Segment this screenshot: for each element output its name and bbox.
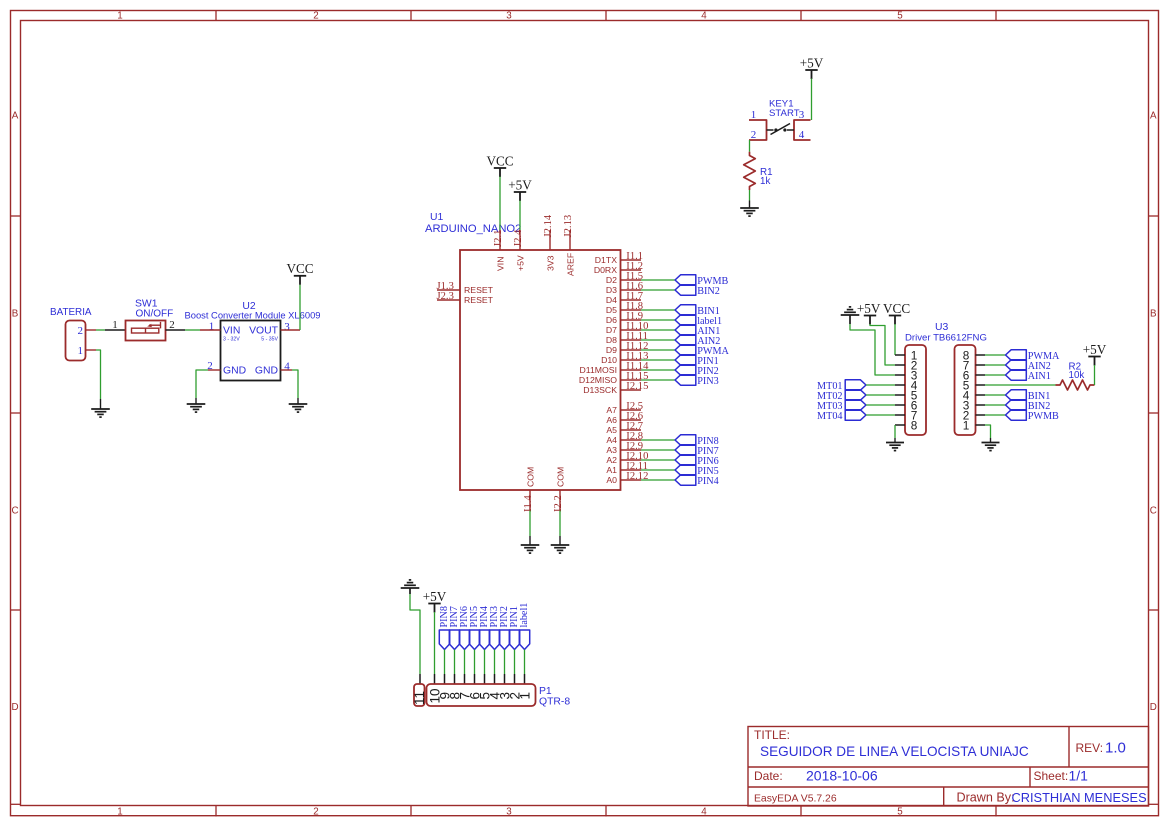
U3 left pin 3: [895, 374, 905, 376]
U1 top pin AREF / net J2.13: [569, 230, 571, 250]
wire R1 to ground: [749, 190, 751, 201]
svg-text:2: 2: [78, 325, 84, 337]
svg-text:4: 4: [284, 361, 290, 373]
U1 right pin D0RX / net I1.2: [621, 269, 642, 271]
title block dividers: [748, 766, 1149, 768]
U3 right body: [955, 345, 976, 435]
wire ground to P1.11: [409, 588, 411, 594]
wire +5V to U3.2: [870, 324, 895, 365]
net flag BIN1: [1006, 390, 1027, 400]
U1 right pin A7 / net I2.5: [621, 409, 642, 411]
svg-text:REV:: REV:: [1076, 741, 1104, 755]
U2 pin 3 stub: [281, 329, 301, 331]
U1 right pin D3 / net I1.6: [621, 289, 642, 291]
svg-text:D0RX: D0RX: [594, 265, 617, 275]
U3 left body: [905, 345, 926, 435]
net flag BIN2: [1006, 400, 1027, 410]
wire U3.1 right to ground: [985, 425, 991, 438]
svg-text:P1: P1: [539, 686, 552, 697]
U1 right pin A0 / net I2.12: [621, 479, 642, 481]
net flag PIN3: [489, 630, 499, 650]
svg-text:4: 4: [701, 806, 707, 817]
wire U3 to flag PWMB: [985, 414, 1006, 416]
svg-text:VCC: VCC: [286, 261, 313, 276]
svg-text:A1: A1: [606, 465, 617, 475]
ground at U1 COM I2.2: [551, 544, 570, 546]
wire D8 to flag AIN2: [641, 339, 675, 341]
U1 right pin D11MOSI / net I1.14: [621, 369, 642, 371]
svg-text:2: 2: [313, 11, 318, 22]
U3 right pin 7: [976, 364, 986, 366]
wire VCC to U2.3: [299, 285, 301, 330]
wire A1 to flag PIN5: [641, 469, 675, 471]
wire +5V to KEY1.3: [811, 79, 813, 121]
svg-text:+5V: +5V: [516, 255, 526, 271]
ground at U3 right pin1: [982, 442, 1000, 444]
U1 right pin D6 / net I1.9: [621, 319, 642, 321]
wire U3 to flag BIN2: [985, 404, 1006, 406]
svg-text:+5V: +5V: [857, 301, 881, 316]
svg-text:D3: D3: [606, 285, 617, 295]
svg-text:START: START: [769, 108, 800, 119]
U3 left pin 2: [895, 364, 905, 366]
wire A2 to flag PIN6: [641, 459, 675, 461]
U1 right pin D8 / net I1.11: [621, 339, 642, 341]
net flag PIN7: [675, 445, 696, 455]
svg-text:QTR-8: QTR-8: [539, 697, 570, 708]
svg-text:1k: 1k: [760, 176, 770, 187]
svg-text:GND: GND: [255, 366, 278, 377]
svg-text:A7: A7: [606, 405, 617, 415]
net flag PIN2: [675, 365, 696, 375]
svg-text:1: 1: [209, 321, 215, 333]
svg-text:CRISTHIAN MENESES: CRISTHIAN MENESES: [1012, 790, 1147, 805]
svg-text:RESET: RESET: [464, 285, 494, 295]
U1 top pin VIN / net J2.1: [499, 230, 501, 250]
wire U3 to flag BIN1: [985, 394, 1006, 396]
switch SW1 body: [126, 321, 166, 341]
svg-text:1: 1: [117, 11, 122, 22]
net flag label1: [675, 315, 696, 325]
svg-text:A: A: [12, 111, 19, 122]
svg-text:GND: GND: [223, 366, 246, 377]
svg-text:D: D: [11, 702, 18, 713]
connector P1 pin11 body: [414, 684, 425, 706]
U1 bottom pin COM / net I2.2: [559, 490, 561, 511]
net flag PIN6: [675, 455, 696, 465]
svg-text:J2.4: J2.4: [513, 229, 524, 247]
net flag PIN2: [499, 630, 509, 650]
resistor R1: [744, 152, 756, 190]
button KEY1 body: [749, 120, 767, 140]
wire VCC to U3.1: [894, 324, 896, 355]
svg-text:3: 3: [799, 109, 805, 121]
svg-text:RESET: RESET: [464, 295, 494, 305]
U1 left pin RESET / net J2.3: [437, 299, 460, 301]
U1 right pin A2 / net I2.10: [621, 459, 642, 461]
svg-text:J2.3: J2.3: [437, 291, 454, 302]
svg-text:U1: U1: [430, 212, 444, 223]
svg-text:1: 1: [117, 806, 122, 817]
net flag MT03: [845, 400, 866, 410]
wire A0 to flag PIN4: [641, 479, 675, 481]
net flag PWMA: [1006, 350, 1027, 360]
net flag PWMB: [1006, 410, 1027, 420]
frame row D closing ticks: [11, 803, 21, 805]
net flag PIN4: [479, 630, 489, 650]
wire A4 to flag PIN8: [641, 439, 675, 441]
wire PIN3 to P1: [494, 650, 496, 675]
wire PIN6 to P1: [464, 650, 466, 675]
U1 right pin D10 / net I1.13: [621, 359, 642, 361]
U1 right pin D13SCK / net I2.15: [621, 389, 642, 391]
svg-text:+5V: +5V: [423, 589, 447, 604]
U1 right pin A6 / net I2.6: [621, 419, 642, 421]
wire D9 to flag PWMA: [641, 349, 675, 351]
U1 right pin D5 / net I1.8: [621, 309, 642, 311]
svg-text:U3: U3: [935, 322, 949, 333]
svg-text:D2: D2: [606, 275, 617, 285]
wire +5V to P1.10: [434, 612, 436, 674]
wire PIN7 to P1: [454, 650, 456, 675]
wire U3.8 to ground: [894, 425, 896, 438]
wire SW1.2 to U2.1: [185, 329, 200, 331]
wire COM to ground: [529, 511, 531, 537]
U2 pin 4 stub: [281, 369, 293, 371]
svg-text:VIN: VIN: [496, 257, 506, 271]
ground at R1: [740, 207, 759, 209]
wire U3.5 to R2: [985, 384, 1056, 386]
U1 right pin A3 / net I2.9: [621, 449, 642, 451]
wire MT01 to U3: [866, 384, 895, 386]
ground at U1 COM I1.4: [521, 544, 540, 546]
wire +5V to U1 +5V pin: [519, 201, 521, 231]
wire D7 to flag AIN1: [641, 329, 675, 331]
svg-text:2: 2: [751, 129, 757, 141]
svg-text:J2.1: J2.1: [493, 230, 504, 247]
svg-text:D11MOSI: D11MOSI: [580, 365, 618, 375]
wire BATERIA.2 to SW1.1: [96, 329, 105, 331]
svg-text:A6: A6: [606, 415, 617, 425]
wire U3 to flag PWMA: [985, 354, 1006, 356]
U3 right pin 8: [976, 354, 986, 356]
net flag PIN1: [509, 630, 519, 650]
svg-text:Drawn By:: Drawn By:: [957, 790, 1015, 804]
U3 right pin 4: [976, 394, 986, 396]
svg-text:ARDUINO_NANO2: ARDUINO_NANO2: [425, 223, 521, 235]
svg-text:2018-10-06: 2018-10-06: [806, 767, 878, 783]
U1 right pin A1 / net I2.11: [621, 469, 642, 471]
ground (flipped) at U3 left: [841, 314, 860, 316]
svg-text:MT04: MT04: [817, 411, 842, 422]
svg-text:label1: label1: [519, 603, 530, 628]
ground at BATERIA.1: [91, 408, 110, 410]
wire MT04 to U3: [866, 414, 895, 416]
net flag AIN1: [1006, 370, 1027, 380]
net flag PWMB: [675, 275, 696, 285]
U1 right pin D7 / net I1.10: [621, 329, 642, 331]
svg-text:1: 1: [112, 319, 118, 331]
frame column ticks: [215, 11, 217, 21]
svg-text:C: C: [1150, 506, 1157, 517]
svg-text:TITLE:: TITLE:: [754, 728, 790, 742]
svg-text:+5V: +5V: [508, 177, 532, 192]
svg-text:D4: D4: [606, 295, 617, 305]
net flag PIN4: [675, 475, 696, 485]
net flag PIN3: [675, 375, 696, 385]
U3 left pin 6: [895, 404, 905, 406]
svg-text:1: 1: [517, 692, 532, 700]
svg-text:8: 8: [911, 418, 918, 432]
svg-text:AIN1: AIN1: [1028, 371, 1051, 382]
svg-text:4: 4: [799, 129, 805, 141]
svg-text:PWMB: PWMB: [1028, 411, 1059, 422]
wire label1 to P1: [524, 650, 526, 675]
net flag BIN1: [675, 305, 696, 315]
svg-text:PIN4: PIN4: [697, 476, 719, 487]
svg-text:B: B: [1150, 309, 1157, 320]
U3 right pin 2: [976, 414, 986, 416]
wire U2.2 to ground: [196, 370, 208, 398]
U1 right pin D9 / net I1.12: [621, 349, 642, 351]
svg-text:A4: A4: [606, 435, 617, 445]
wire U3 to flag AIN2: [985, 364, 1006, 366]
U3 left pin 8: [895, 424, 905, 426]
svg-text:D9: D9: [606, 345, 617, 355]
svg-text:2: 2: [169, 319, 175, 331]
wire D5 to flag BIN1: [641, 309, 675, 311]
connector BATERIA body: [66, 321, 86, 361]
wire KEY1.2 to R1: [749, 140, 751, 152]
svg-text:10k: 10k: [1069, 370, 1085, 381]
wire PIN5 to P1: [474, 650, 476, 675]
U3 right pin 5: [976, 384, 986, 386]
wire D3 to flag BIN2: [641, 289, 675, 291]
svg-text:ON/OFF: ON/OFF: [136, 309, 174, 320]
svg-text:COM: COM: [556, 467, 566, 487]
U2 pin 2 stub: [208, 369, 221, 371]
net flag label1: [519, 630, 529, 650]
svg-text:I2.12: I2.12: [626, 471, 648, 482]
svg-text:BIN2: BIN2: [697, 286, 720, 297]
U3 right pin 3: [976, 404, 986, 406]
U3 right pin 6: [976, 374, 986, 376]
svg-text:3 - 32V: 3 - 32V: [223, 337, 240, 343]
KEY1 contact dots and actuator: [774, 128, 777, 131]
svg-text:+5V: +5V: [800, 55, 824, 70]
svg-text:D12MISO: D12MISO: [579, 375, 617, 385]
svg-text:1/1: 1/1: [1069, 767, 1089, 783]
svg-text:+5V: +5V: [1083, 342, 1107, 357]
svg-text:B: B: [12, 309, 19, 320]
wire PIN1 to P1: [514, 650, 516, 675]
svg-text:A: A: [1150, 111, 1157, 122]
net flag BIN2: [675, 285, 696, 295]
svg-text:5: 5: [897, 11, 903, 22]
svg-text:SEGUIDOR DE LINEA VELOCISTA UN: SEGUIDOR DE LINEA VELOCISTA UNIAJC: [760, 744, 1029, 759]
net flag MT01: [845, 380, 866, 390]
net flag PIN8: [439, 630, 449, 650]
U1 bottom pin COM / net I1.4: [529, 490, 531, 511]
frame row ticks: [11, 215, 21, 217]
svg-text:5 - 35V: 5 - 35V: [261, 337, 278, 343]
wire D2 to flag PWMB: [641, 279, 675, 281]
svg-text:A0: A0: [606, 475, 617, 485]
svg-text:D: D: [1150, 702, 1157, 713]
svg-text:5: 5: [897, 806, 903, 817]
switch SW1 slide symbol: [132, 328, 159, 333]
U1 right pin D2 / net I1.5: [621, 279, 642, 281]
svg-text:VOUT: VOUT: [249, 326, 279, 337]
svg-text:AREF: AREF: [566, 253, 576, 276]
svg-text:3V3: 3V3: [546, 255, 556, 271]
net flag PIN1: [675, 355, 696, 365]
svg-text:COM: COM: [526, 467, 536, 487]
wire D12MISO to flag PIN3: [641, 379, 675, 381]
svg-text:1: 1: [751, 109, 757, 121]
wire MT03 to U3: [866, 404, 895, 406]
svg-text:D5: D5: [606, 305, 617, 315]
svg-text:A3: A3: [606, 445, 617, 455]
svg-text:J2.13: J2.13: [563, 215, 574, 238]
net flag PIN7: [449, 630, 459, 650]
wire BATERIA.1 to ground: [96, 350, 101, 399]
svg-text:1: 1: [963, 418, 970, 432]
connector P1 main body: [427, 684, 536, 706]
svg-text:I1.4: I1.4: [523, 495, 534, 512]
net flag PIN6: [459, 630, 469, 650]
svg-text:D8: D8: [606, 335, 617, 345]
wire PIN8 to P1: [444, 650, 446, 675]
U1 right pin A4 / net I2.8: [621, 439, 642, 441]
svg-text:EasyEDA V5.7.26: EasyEDA V5.7.26: [754, 793, 837, 804]
net flag AIN2: [675, 335, 696, 345]
svg-text:A2: A2: [606, 455, 617, 465]
U1 body: [460, 250, 621, 490]
wire MT02 to U3: [866, 394, 895, 396]
svg-text:Driver TB6612FNG: Driver TB6612FNG: [905, 333, 987, 344]
svg-text:3: 3: [284, 321, 290, 333]
svg-text:3: 3: [506, 806, 512, 817]
svg-text:D10: D10: [601, 355, 617, 365]
wire PIN2 to P1: [504, 650, 506, 675]
svg-text:BATERIA: BATERIA: [50, 307, 92, 318]
net flag AIN2: [1006, 360, 1027, 370]
wire D10 to flag PIN1: [641, 359, 675, 361]
U3 left pin 1: [895, 354, 905, 356]
BATERIA pin 1 stub: [86, 349, 97, 351]
svg-text:D7: D7: [606, 325, 617, 335]
net flag MT02: [845, 390, 866, 400]
svg-text:I2.15: I2.15: [626, 381, 648, 392]
net flag PWMA: [675, 345, 696, 355]
net flag AIN1: [675, 325, 696, 335]
wire COM to ground: [559, 511, 561, 537]
svg-text:Sheet:: Sheet:: [1034, 769, 1069, 783]
net flag PIN5: [675, 465, 696, 475]
svg-text:VCC: VCC: [486, 153, 513, 168]
wire U3 to flag AIN1: [985, 374, 1006, 376]
U2 body: [221, 321, 281, 381]
wire ground to U3.3: [849, 315, 851, 324]
ground (flipped) at P1: [401, 587, 420, 589]
svg-text:4: 4: [701, 11, 707, 22]
svg-text:VCC: VCC: [883, 301, 910, 316]
ground at U3.8: [886, 442, 904, 444]
svg-text:A5: A5: [606, 425, 617, 435]
U3 left pin 4: [895, 384, 905, 386]
svg-text:PIN3: PIN3: [697, 376, 719, 387]
svg-text:3: 3: [506, 11, 512, 22]
U1 right pin D4 / net I1.7: [621, 299, 642, 301]
svg-text:11: 11: [412, 691, 427, 705]
U1 top pin +5V / net J2.4: [519, 230, 521, 250]
svg-text:C: C: [11, 506, 18, 517]
wire D11MOSI to flag PIN2: [641, 369, 675, 371]
U1 right pin D12MISO / net I1.15: [621, 379, 642, 381]
svg-text:2: 2: [313, 806, 318, 817]
ground at U2.2: [187, 403, 206, 405]
U1 right pin A5 / net I2.7: [621, 429, 642, 431]
title block outline: [748, 727, 1149, 807]
U1 left pin RESET / net J1.3: [437, 289, 460, 291]
wire U2.4 to ground: [292, 370, 298, 398]
svg-text:I2.2: I2.2: [553, 495, 564, 512]
svg-text:D1TX: D1TX: [595, 255, 617, 265]
svg-text:D13SCK: D13SCK: [583, 385, 617, 395]
U3 right pin 1: [976, 424, 986, 426]
resistor R2: [1056, 380, 1095, 390]
svg-text:1: 1: [78, 345, 84, 357]
wire VCC to U1.VIN: [499, 177, 501, 231]
svg-text:J2.14: J2.14: [543, 214, 554, 237]
net flag PIN5: [469, 630, 479, 650]
U2 pin 1 stub: [200, 329, 221, 331]
wire D6 to flag label1: [641, 319, 675, 321]
net flag PIN8: [675, 435, 696, 445]
net flag MT04: [845, 410, 866, 420]
wire PIN4 to P1: [484, 650, 486, 675]
wire A3 to flag PIN7: [641, 449, 675, 451]
svg-text:D6: D6: [606, 315, 617, 325]
U3 left pin 7: [895, 414, 905, 416]
svg-text:1.0: 1.0: [1105, 740, 1126, 757]
wire R2 to +5V: [1094, 365, 1096, 385]
U1 top pin 3V3 / net J2.14: [549, 230, 551, 250]
U1 right pin D1TX / net I1.1: [621, 259, 642, 261]
svg-text:VIN: VIN: [223, 326, 240, 337]
svg-text:Date:: Date:: [754, 769, 783, 783]
SW1 pin 2 lead: [166, 329, 186, 331]
U3 left pin 5: [895, 394, 905, 396]
BATERIA pin 2 stub: [86, 329, 97, 331]
ground at U2.4: [289, 403, 308, 405]
